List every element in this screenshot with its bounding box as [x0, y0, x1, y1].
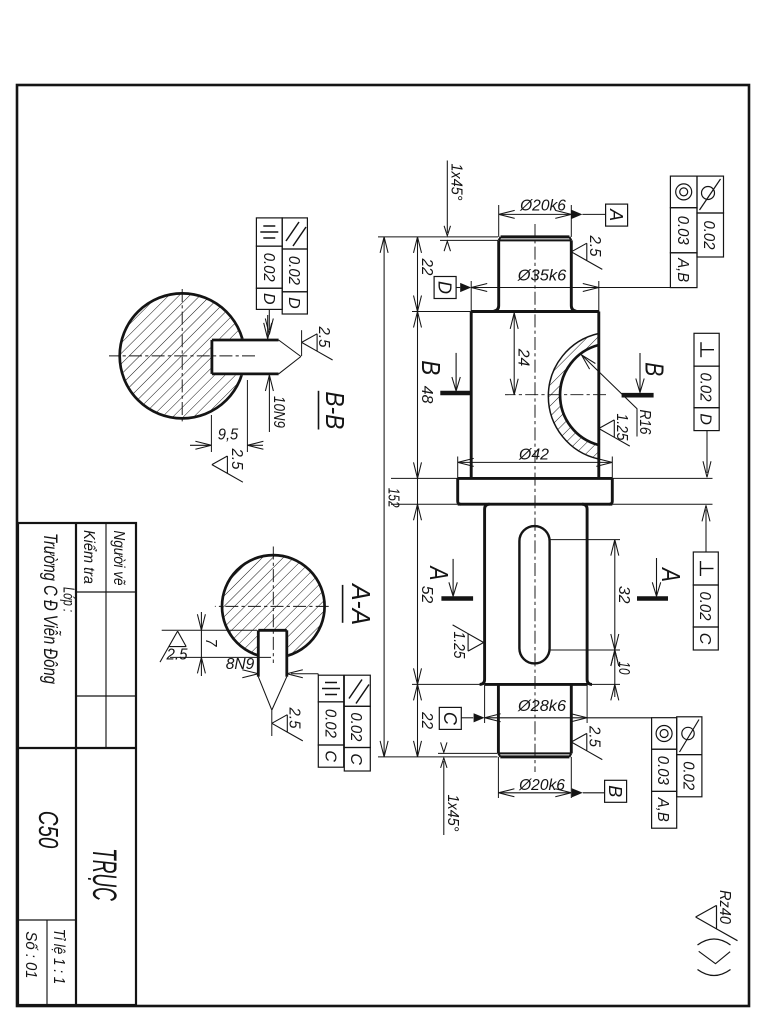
chain arrow at flange left [414, 462, 422, 478]
extension line slot right arc center up [550, 649, 620, 651]
svg-text:A: A [606, 208, 626, 221]
B-B keyway bottom face [211, 340, 214, 374]
B-B keyway left side [212, 339, 279, 342]
perp frame 1 leader [706, 431, 708, 473]
symmetry symbol B-B [263, 225, 275, 227]
chain dimension line [417, 237, 419, 757]
roughness 1.25 keyway bottom (apex up) [453, 625, 484, 651]
svg-text:D: D [697, 413, 714, 425]
Ø42 extension stubs [611, 457, 613, 479]
svg-text:8N9: 8N9 [226, 656, 255, 673]
roughness 2.5 B-B keyway [302, 334, 333, 360]
R16 leader [581, 355, 637, 437]
shaft centerline (axis) [534, 224, 536, 772]
svg-text:R16: R16 [636, 410, 653, 435]
shaft section 2 (Ø35k6) top edge [597, 312, 600, 479]
A-A parallelism frame (top row) [344, 675, 370, 706]
flange left face [458, 477, 613, 480]
svg-text:D: D [435, 281, 455, 294]
extension line right chamfer down [438, 752, 498, 754]
A-A keyway top side [285, 630, 288, 676]
svg-text:22: 22 [418, 711, 435, 729]
chamfer callout right 1x45 [443, 761, 445, 835]
svg-text:Kiểm tra: Kiểm tra [80, 530, 98, 584]
extension line shoulder S4S5 up [587, 683, 620, 685]
svg-text:0.02: 0.02 [260, 253, 277, 282]
R16 milled pocket hatched crescent [548, 334, 598, 460]
svg-text:1.25: 1.25 [613, 414, 630, 441]
svg-text:0.02: 0.02 [285, 256, 302, 285]
section B cutting mark bottom [440, 391, 472, 396]
B-B 10N9 dim left part [267, 315, 269, 338]
extension line slot left arc center up [550, 539, 620, 541]
svg-text:1.25: 1.25 [450, 632, 467, 659]
shaft section 4 (Ø28k6) top edge with fillet [582, 504, 592, 684]
datum D triangle [460, 283, 471, 292]
A-A symmetry frame (bottom row) [318, 675, 343, 702]
roughness 1.25 on pocket [599, 420, 630, 446]
dim 10 arrow left (outside) [611, 650, 619, 666]
svg-text:Ø28k6: Ø28k6 [517, 698, 566, 715]
svg-text:52: 52 [418, 586, 435, 604]
svg-text:0.02: 0.02 [696, 592, 713, 621]
A-A keyway tip extension [271, 710, 273, 736]
svg-text:Ø20k6: Ø20k6 [519, 197, 566, 214]
svg-text:B-B: B-B [320, 391, 350, 429]
title block outline [18, 523, 136, 1005]
svg-text:24: 24 [515, 348, 532, 367]
Ø35k6 extension stubs [598, 281, 600, 312]
B-B symmetry frame (bottom row) [256, 218, 282, 246]
svg-text:48: 48 [418, 386, 435, 404]
A-A dim 7: ext from slot bottom face [162, 629, 257, 631]
svg-text:C: C [347, 753, 364, 765]
datum C box [439, 707, 461, 729]
svg-text:2.5: 2.5 [585, 725, 602, 747]
Ø20k6 right extension stubs [570, 757, 572, 798]
extension line shoulder S4S5 down [412, 683, 484, 685]
roughness 2.5 at 9,5 [212, 456, 243, 482]
svg-text:Ø42: Ø42 [518, 447, 549, 464]
Ø28k6 extension stubs [586, 684, 588, 723]
svg-text:0.02: 0.02 [680, 761, 697, 790]
Ø20k6 right dimension line [498, 792, 571, 794]
symmetry symbol A-A [325, 682, 337, 684]
datum C leader [461, 717, 473, 719]
A-A section circle hatched [222, 555, 325, 658]
perpendicularity frame (0.02 C) [693, 552, 718, 585]
Rz40 basic check in parens [699, 951, 730, 963]
svg-text:Tỉ lệ 1 : 1: Tỉ lệ 1 : 1 [50, 929, 67, 985]
left end chamfer edge line [499, 239, 572, 241]
R16 leader arrow [581, 355, 595, 369]
extension line shoulder S1S2 down [412, 311, 471, 313]
Ø35k6 dimension line up to tolerance frame [471, 287, 670, 289]
A-A 8N9 dim extension [291, 673, 318, 675]
7 arrow left [197, 614, 205, 630]
dimension 24 line [513, 313, 515, 395]
datum B leader [583, 792, 605, 794]
left end chamfer top corner [569, 237, 571, 241]
overall dimension 152 line [383, 237, 385, 757]
chamfer callout left 1x45 [446, 161, 448, 234]
section B cutting mark top [622, 393, 654, 398]
tolerance frame2 top row: runout 0.02 [677, 717, 702, 755]
Rz40 basic symbol [696, 905, 738, 940]
right end face [500, 755, 569, 758]
dim 10 arrow right (outside) [611, 684, 619, 700]
B-B keyway tip extension [301, 330, 303, 356]
extension line right end face down [378, 756, 498, 758]
B-B section circle hatched [120, 293, 245, 418]
shaft section 1 bottom edge with fillet [494, 240, 499, 311]
A-A dim 7: ext from circle edge [170, 656, 271, 658]
left end chamfer bottom corner [499, 237, 501, 241]
shaft section 5 bottom edge [497, 684, 500, 753]
svg-text:D: D [260, 293, 277, 305]
flange right face extension lines [612, 503, 712, 505]
svg-text:Người vẽ: Người vẽ [110, 531, 127, 586]
Ø20k6 left dimension line [499, 213, 572, 215]
svg-text:C: C [696, 633, 713, 645]
flange Ø42 top edge [609, 478, 612, 504]
section A cutting mark top [637, 596, 668, 601]
A-A section circle outline [222, 555, 325, 658]
datum A triangle [571, 210, 582, 219]
svg-text:0.02: 0.02 [700, 221, 717, 250]
datum B box [605, 780, 627, 802]
roughness 2.5 pointing left at slot ext [160, 631, 186, 662]
svg-text:A,B: A,B [654, 797, 671, 822]
svg-text:1x45°: 1x45° [444, 795, 461, 833]
section A cutting mark bottom [441, 596, 473, 601]
svg-text:1x45°: 1x45° [448, 164, 465, 202]
R16 pocket centerline [505, 394, 606, 396]
8N9 arrow bottom [242, 670, 258, 678]
svg-text:A-A: A-A [346, 582, 376, 625]
B-B keyway white cutout [213, 339, 261, 376]
roughness 2.5 on Ø20 left [571, 243, 602, 269]
svg-text:22: 22 [418, 258, 435, 276]
tolerance frame: runout 0.02 (top row) [697, 176, 724, 213]
svg-text:2.5: 2.5 [166, 647, 188, 664]
B-B centerline horizontal [181, 289, 183, 423]
svg-text:0.02: 0.02 [697, 373, 714, 402]
flange Ø42 bottom edge [458, 478, 461, 504]
svg-text:B: B [640, 362, 670, 376]
R16 pocket outer arc [548, 334, 598, 460]
svg-text:TRỤC: TRỤC [85, 848, 123, 901]
chain arrow at left end face [414, 237, 422, 253]
svg-text:D: D [285, 297, 302, 309]
perpendicularity symbol 1 [701, 349, 714, 351]
A-A keyway taper tip [258, 677, 287, 710]
svg-text:2.5: 2.5 [228, 448, 245, 470]
Rz40 parenthesis left [698, 939, 731, 945]
svg-text:C50: C50 [33, 811, 64, 849]
extension line left end face down [378, 236, 498, 238]
dimension 10 line [614, 650, 616, 697]
datum A leader [582, 213, 605, 215]
flange left face (full extension line, thin beyond flange) [612, 477, 712, 479]
datum D box [434, 277, 456, 299]
dimension 32 line [614, 540, 616, 650]
Ø28k6 dimension line [485, 717, 652, 719]
shaft section 4 bottom edge with fillet [480, 504, 490, 684]
shaft section 5 (Ø20k6 right) top edge [570, 684, 573, 753]
section B arrow bottom [455, 353, 457, 390]
shaft section 2 bottom edge [470, 312, 473, 479]
shoulder face S4-S5 [485, 683, 587, 686]
A-A keyway bottom side [257, 630, 260, 676]
parallelism symbol A-A [349, 680, 369, 704]
svg-text:C: C [440, 712, 460, 726]
svg-text:2.5: 2.5 [285, 707, 302, 729]
title block inner lines [75, 523, 77, 1005]
datum B triangle [572, 788, 583, 797]
datum C triangle [474, 713, 485, 722]
7 arrow right [197, 657, 205, 673]
svg-text:Ø35k6: Ø35k6 [517, 268, 567, 285]
A-A frames leader (connects to 8N9 dim) [317, 674, 319, 676]
svg-text:A,B: A,B [674, 257, 691, 282]
B-B frames leader [268, 309, 270, 330]
svg-text:A: A [656, 566, 686, 582]
datum D leader [456, 287, 460, 289]
svg-text:0.03: 0.03 [654, 756, 671, 785]
svg-text:0.02: 0.02 [347, 712, 364, 741]
parallelism symbol B-B [286, 222, 306, 246]
svg-text:152: 152 [385, 488, 402, 508]
B-B section circle outline [120, 293, 245, 418]
A-A keyway bottom face [258, 629, 287, 632]
section B arrow top [639, 353, 641, 391]
B-B centerline vertical [109, 355, 255, 357]
svg-text:Lớp :: Lớp : [60, 587, 77, 612]
svg-text:Rz40: Rz40 [716, 890, 733, 924]
keyway slot (8N9) stadium outline [519, 526, 549, 663]
B-B 9,5 dim extension top [246, 380, 248, 452]
B-B 10N9 dim right part [268, 375, 270, 432]
tolerance frame2 row2: concentricity 0.03 A,B [652, 718, 677, 750]
shaft section 1 (Ø20k6 left) top edge with fillet into shoulder [571, 240, 576, 311]
svg-text:B: B [605, 785, 625, 797]
svg-text:10: 10 [615, 662, 632, 675]
perp frame 2 leader [705, 510, 707, 553]
svg-text:Trường C Đ Viễn Đông: Trường C Đ Viễn Đông [39, 533, 60, 684]
Rz40 parenthesis right [698, 970, 731, 976]
B-B parallelism frame (top row) [282, 218, 307, 249]
svg-text:10N9: 10N9 [270, 396, 287, 428]
perpendicularity symbol 2 [701, 568, 714, 570]
A-A centerline horizontal [272, 547, 274, 664]
svg-text:0.02: 0.02 [322, 709, 339, 738]
chain arrow 22/48 at shoulder [414, 296, 422, 312]
B-B 9,5 dimension line [247, 444, 263, 446]
chain arrow right end face [414, 741, 422, 757]
A-A dim 7 dimension line [200, 612, 202, 676]
8N9 arrow top [287, 670, 303, 678]
roughness 2.5 on right end surface [571, 733, 602, 759]
svg-text:32: 32 [615, 586, 632, 604]
Ø42 dimension line [458, 461, 613, 463]
shoulder face S1-S2 [471, 310, 599, 313]
svg-text:Số : 01: Số : 01 [22, 931, 39, 978]
Ø20k6 left: extension stubs [570, 205, 572, 237]
B-B keyway right side [212, 372, 279, 375]
right end chamfer corners [569, 753, 571, 757]
svg-text:0.03: 0.03 [674, 216, 691, 245]
svg-text:7: 7 [202, 639, 219, 648]
chain arrow 52/22 at shoulder [414, 668, 422, 684]
svg-text:9,5: 9,5 [218, 427, 239, 444]
right end chamfer edge line [498, 752, 571, 754]
section A arrow bottom [452, 559, 454, 595]
svg-text:A: A [424, 565, 454, 581]
concentricity symbol [676, 184, 692, 200]
runout symbol cell content [702, 187, 715, 200]
svg-text:C: C [322, 750, 339, 762]
svg-text:2.5: 2.5 [315, 326, 332, 348]
roughness 2.5 A-A keyway [272, 715, 303, 741]
section A arrow top [656, 558, 658, 595]
chain arrow at flange right [414, 504, 422, 520]
B-B 9,5 dim extension bottom [210, 415, 212, 452]
svg-text:2.5: 2.5 [586, 235, 603, 257]
extension line left chamfer down [440, 239, 498, 241]
perpendicularity frame (0.02 D) [694, 333, 719, 366]
R16 pocket inner arc [560, 345, 599, 445]
A-A centerline vertical [215, 605, 329, 607]
dim 10 arrow left inside [611, 650, 619, 666]
A-A keyway white cutout [257, 629, 288, 660]
tolerance frame row2: concentricity 0.03 A,B [670, 176, 697, 208]
svg-text:Ø20k6: Ø20k6 [518, 777, 565, 794]
datum A box [606, 204, 628, 226]
svg-text:B: B [416, 360, 446, 375]
B-B keyway taper tip [279, 340, 301, 374]
shaft left end face [501, 235, 570, 238]
flange right face [458, 503, 613, 506]
